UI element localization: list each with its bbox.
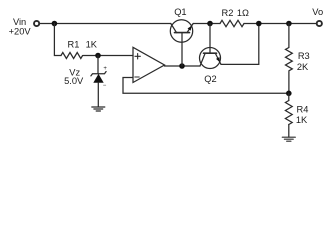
wire op-amp inverting input to feedback node — [123, 78, 289, 94]
transistor Q2 circle — [200, 48, 221, 69]
svg-text:+20V: +20V — [9, 26, 32, 36]
node op-amp output junction — [179, 63, 185, 69]
svg-text:1Ω: 1Ω — [237, 8, 249, 18]
resistor R1 — [61, 53, 83, 59]
wire R4 bottom lead to ground — [288, 125, 290, 138]
resistor R3 — [286, 48, 293, 71]
wire op-amp output — [165, 65, 201, 67]
node feedback junction — [286, 91, 292, 97]
transistor Q1 emitter lead — [187, 24, 193, 33]
op-amp U1 triangle — [133, 47, 165, 82]
input terminal Vin — [34, 21, 39, 26]
node Vin junction — [52, 21, 58, 27]
wire R3 bottom lead — [288, 72, 290, 94]
transistor Q2 base bar — [204, 52, 217, 54]
wire Q2 emitter to output node — [221, 24, 259, 65]
transistor Q1 emitter arrow — [188, 26, 192, 31]
transistor Q1 circle — [170, 20, 192, 42]
zener diode Vz cathode bar — [91, 72, 106, 76]
ground below zener — [92, 107, 105, 111]
zener diode Vz anode triangle — [93, 74, 103, 83]
transistor Q2 emitter lead — [216, 54, 222, 65]
svg-text:2K: 2K — [297, 62, 309, 72]
wire Vin junction down to R1 — [54, 24, 61, 56]
wire Q2 base lead — [209, 24, 211, 54]
wire top rail from Vin to Q1 collector — [40, 23, 171, 25]
svg-text:+: + — [103, 66, 107, 72]
output terminal Vo — [317, 21, 322, 26]
transistor Q1 base bar — [175, 32, 190, 34]
svg-text:−: − — [103, 83, 107, 89]
node output junction — [256, 21, 262, 27]
wire Q1 base lead — [181, 33, 183, 66]
svg-text:Q2: Q2 — [204, 74, 216, 84]
svg-text:1K: 1K — [296, 115, 308, 125]
transistor Q1 collector lead — [171, 24, 177, 33]
svg-text:R3: R3 — [298, 51, 310, 61]
svg-text:R4: R4 — [297, 105, 309, 115]
node R3 top junction — [286, 21, 292, 27]
svg-text:Q1: Q1 — [174, 7, 186, 17]
transistor Q2 emitter arrow — [216, 57, 220, 62]
op-amp plus mark — [135, 54, 141, 60]
transistor Q2 collector lead — [200, 54, 205, 66]
wire R1 to op-amp + input — [83, 55, 133, 57]
resistor R4 — [285, 101, 292, 125]
wire R2 right to output terminal — [244, 23, 316, 25]
wire zener anode to ground — [97, 83, 99, 107]
svg-text:Vo: Vo — [312, 7, 323, 17]
wire R4 top lead — [288, 93, 290, 100]
resistor R2 — [220, 20, 244, 26]
node Q2 base tap — [207, 21, 213, 27]
svg-text:R2: R2 — [222, 8, 234, 18]
wire R3 top lead — [288, 24, 290, 48]
wire zener top lead — [97, 56, 99, 74]
wire top rail Q1 emitter to R2 — [193, 23, 220, 25]
node zener junction — [95, 53, 101, 59]
svg-text:5.0V: 5.0V — [64, 76, 84, 86]
op-amp minus mark — [135, 76, 139, 78]
ground below R4 — [282, 137, 295, 141]
svg-text:1K: 1K — [86, 40, 98, 50]
svg-text:R1: R1 — [68, 40, 80, 50]
